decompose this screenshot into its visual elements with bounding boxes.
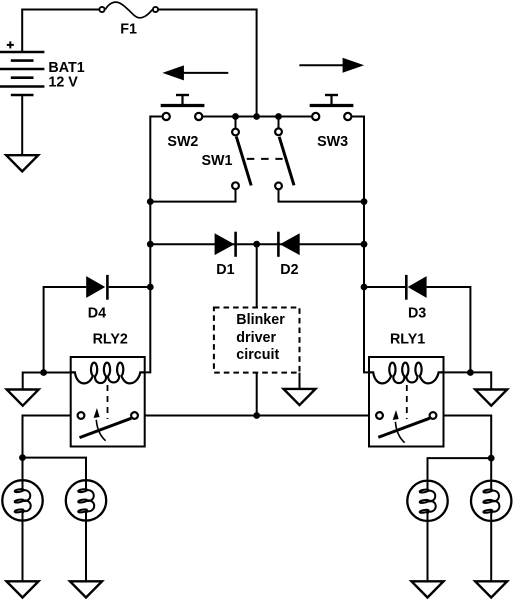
svg-text:BAT1: BAT1 <box>48 60 84 76</box>
svg-text:D4: D4 <box>88 306 106 322</box>
svg-text:F1: F1 <box>120 22 137 38</box>
svg-text:RLY1: RLY1 <box>390 332 425 348</box>
svg-text:Blinker: Blinker <box>236 312 285 328</box>
svg-text:circuit: circuit <box>236 347 279 363</box>
svg-text:D2: D2 <box>280 262 298 278</box>
svg-text:D3: D3 <box>408 306 426 322</box>
svg-text:SW1: SW1 <box>202 153 233 169</box>
svg-text:driver: driver <box>236 330 276 346</box>
svg-text:RLY2: RLY2 <box>93 332 128 348</box>
svg-text:SW2: SW2 <box>167 134 198 150</box>
svg-text:SW3: SW3 <box>317 134 348 150</box>
svg-text:12 V: 12 V <box>48 75 78 91</box>
svg-text:D1: D1 <box>216 262 234 278</box>
